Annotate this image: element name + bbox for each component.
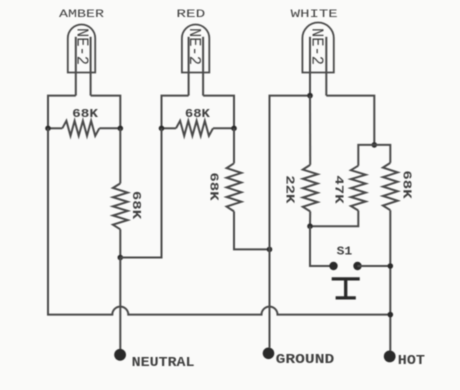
svg-text:68K: 68K [207, 172, 221, 201]
wire: R1 right lead [99, 127, 120, 129]
wire: red-left rail down to node A [120, 128, 161, 257]
resistor R6 47K (vertical) [351, 166, 366, 211]
wire: R2 top lead [119, 128, 121, 183]
svg-text:47K: 47K [332, 175, 346, 204]
node A junction dot (amber/red to neutral) [118, 255, 124, 261]
wire: R5 top lead from node B [309, 96, 311, 165]
wire: DS3 left lead node to ground rail [270, 96, 311, 348]
wire: R4 top lead [233, 128, 235, 163]
svg-text:NEUTRAL: NEUTRAL [132, 355, 195, 371]
svg-text:WHITE: WHITE [291, 9, 339, 21]
resistor R7 68K (vertical, hot rail) [383, 163, 398, 210]
lamp DS2 left electrode [188, 37, 190, 96]
switch S1 plunger (pushbutton actuator) [332, 279, 360, 298]
wire: DS1 left lead to left rail [48, 96, 76, 129]
wire: R2 bottom lead to node A [119, 229, 121, 257]
terminal HOT dot [384, 351, 396, 363]
wire: DS3 right lead over to divider feed [326, 96, 374, 145]
svg-text:AMBER: AMBER [59, 9, 105, 21]
svg-text:S1: S1 [337, 244, 353, 258]
wire: DS1 right lead to node [91, 96, 121, 129]
lamp DS1 right electrode [90, 37, 92, 96]
svg-text:NE-2: NE-2 [71, 28, 90, 65]
wire: R3 left lead [162, 127, 177, 129]
terminal NEUTRAL dot [114, 349, 126, 361]
resistor R5 22K (vertical) [303, 165, 318, 212]
wire: S1 right contact to hot rail [358, 265, 391, 267]
wire: DS2 left lead to red-left rail [162, 96, 189, 129]
junction dot: R3 left [159, 126, 165, 132]
wire: R4 bottom lead to ground rail [234, 211, 270, 249]
svg-text:NE-2: NE-2 [306, 28, 325, 65]
wire: node C down to switch S1 left contact [310, 226, 334, 266]
svg-text:GROUND: GROUND [276, 352, 335, 368]
wire: R1 left lead [48, 127, 62, 129]
left rail wire down and bottom bus with crossover humps [48, 128, 390, 314]
resistor R1 68K (horizontal, amber) [62, 121, 99, 136]
junction dot: switch wire / hot rail [388, 263, 394, 269]
svg-text:HOT: HOT [398, 353, 425, 369]
svg-text:68K: 68K [399, 170, 413, 199]
svg-text:68K: 68K [72, 108, 98, 121]
switch S1 right contact [353, 262, 361, 270]
junction dot: R1 right / neutral rail [118, 126, 124, 132]
wire: R3 right lead [213, 127, 234, 129]
lamp DS3 left electrode [309, 37, 311, 96]
junction dot: node C (22K/47K bottoms) [307, 223, 313, 229]
wire: node A down to NEUTRAL terminal [119, 258, 121, 350]
junction dot: bottom bus / hot rail [388, 312, 394, 318]
neon lamp DS3 WHITE envelope [302, 23, 333, 73]
neon lamp DS1 AMBER envelope [68, 25, 95, 73]
junction dot: R3 right [231, 126, 237, 132]
terminal GROUND dot [263, 348, 275, 360]
wire: hot rail R7 bottom to HOT terminal [389, 210, 391, 350]
junction dot: divider feed node D [372, 142, 378, 148]
wire: R6 bottom lead to node C [310, 211, 358, 227]
wire: DS2 right lead to red-right rail [203, 96, 234, 129]
svg-text:NE-2: NE-2 [184, 28, 203, 65]
resistor R3 68K (horizontal, red) [176, 121, 213, 136]
junction dot: R1 left / left rail [45, 126, 51, 132]
junction dot: DS3 left lead node B [307, 93, 313, 99]
neon lamp DS2 RED envelope [182, 25, 209, 73]
svg-text:RED: RED [176, 9, 205, 21]
svg-text:68K: 68K [129, 191, 143, 220]
lamp DS2 right electrode [202, 37, 204, 96]
switch S1 left contact [329, 262, 337, 270]
svg-text:68K: 68K [185, 108, 210, 121]
wire: node D split to R6 and R7 tops [358, 145, 390, 166]
junction dot: red branch to ground rail [267, 247, 273, 253]
lamp DS3 right electrode [325, 37, 327, 96]
wire: R5 bottom lead to node C [309, 211, 311, 226]
lamp DS1 left electrode [75, 37, 77, 96]
svg-text:22K: 22K [282, 175, 296, 204]
resistor R2 68K (vertical, amber) [113, 183, 128, 229]
resistor R4 68K (vertical, red) [227, 163, 242, 211]
